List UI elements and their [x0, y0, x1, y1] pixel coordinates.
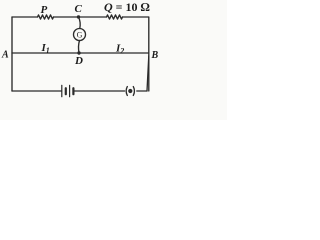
svg-text:C: C — [75, 3, 83, 15]
wire top segment left of P — [12, 16, 38, 18]
wire middle D to B — [79, 52, 149, 54]
battery cell — [62, 85, 74, 96]
wire top segment P to C — [54, 16, 107, 18]
wire bottom left to battery — [12, 90, 62, 92]
svg-text:G: G — [77, 30, 83, 39]
wire middle A to D — [12, 52, 79, 54]
resistor Q — [107, 15, 123, 19]
svg-text:I1: I1 — [41, 42, 50, 55]
svg-text:A: A — [1, 50, 9, 61]
wire key to bottom right corner — [137, 90, 147, 92]
wire battery to key — [73, 90, 124, 92]
svg-text:Q = 10 Ω: Q = 10 Ω — [104, 0, 150, 14]
wire C to galvanometer — [79, 17, 81, 29]
galvanometer U — [74, 29, 86, 41]
wire bottom right corner up — [147, 56, 149, 91]
wire galvanometer to D — [78, 41, 81, 54]
resistor P — [38, 15, 54, 19]
wire right edge vertical — [148, 17, 150, 91]
svg-text:I2: I2 — [115, 43, 124, 56]
wire left edge A vertical — [11, 17, 13, 91]
node D — [77, 51, 80, 54]
svg-text:B: B — [151, 50, 159, 61]
svg-text:P: P — [41, 4, 48, 16]
node C — [77, 15, 80, 18]
key K — [126, 87, 134, 96]
wire top segment right of Q — [123, 16, 149, 18]
svg-text:D: D — [74, 55, 83, 67]
